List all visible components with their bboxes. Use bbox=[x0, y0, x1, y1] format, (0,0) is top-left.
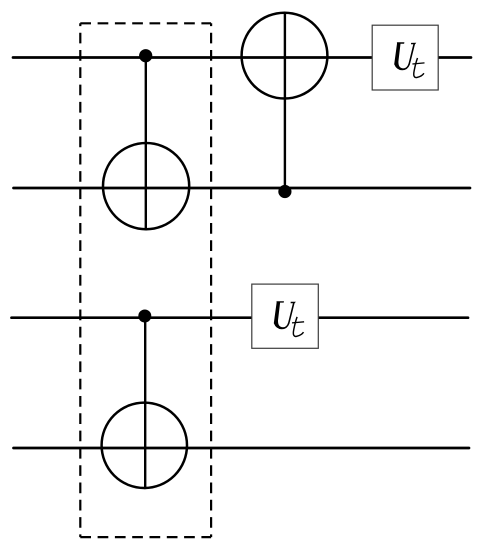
glyph t crossbar (gate 2 label) bbox=[292, 322, 304, 323]
glyph t crossbar (gate 1 label) bbox=[412, 63, 424, 64]
CNOT 3 control dot (q3) bbox=[138, 310, 151, 323]
gate label U_t (q1) bbox=[394, 42, 424, 77]
glyph t stem (gate 1 label) bbox=[414, 58, 424, 78]
CNOT 1 control dot (q1) bbox=[139, 49, 152, 62]
gate label U_t (q3) bbox=[274, 301, 304, 336]
glyph t stem (gate 2 label) bbox=[293, 317, 303, 337]
CNOT 2 control dot (q2) bbox=[278, 185, 291, 198]
dashed group box top edge bbox=[80, 22, 211, 24]
wire q4 bbox=[14, 447, 470, 450]
glyph U (gate 2 label) bbox=[274, 301, 296, 329]
CNOT 3 target circle (q4) bbox=[102, 403, 187, 488]
dashed group box bottom edge bbox=[80, 536, 211, 538]
CNOT 1 vertical link bbox=[145, 56, 147, 231]
dashed group box right edge bbox=[210, 23, 212, 537]
gate box U_t (q3) bbox=[252, 284, 318, 348]
CNOT 2 target circle (q1) bbox=[242, 13, 328, 99]
dashed group box left edge bbox=[79, 23, 81, 537]
CNOT 1 target circle (q2) bbox=[103, 143, 189, 229]
wire q1 bbox=[13, 56, 471, 59]
glyph U (gate 1 label) bbox=[394, 42, 416, 70]
gate box U_t (q1) bbox=[372, 25, 438, 90]
CNOT 2 vertical link bbox=[284, 13, 286, 192]
wire q3 bbox=[12, 316, 469, 319]
wire q2 bbox=[14, 187, 471, 190]
CNOT 3 vertical link bbox=[144, 316, 146, 489]
